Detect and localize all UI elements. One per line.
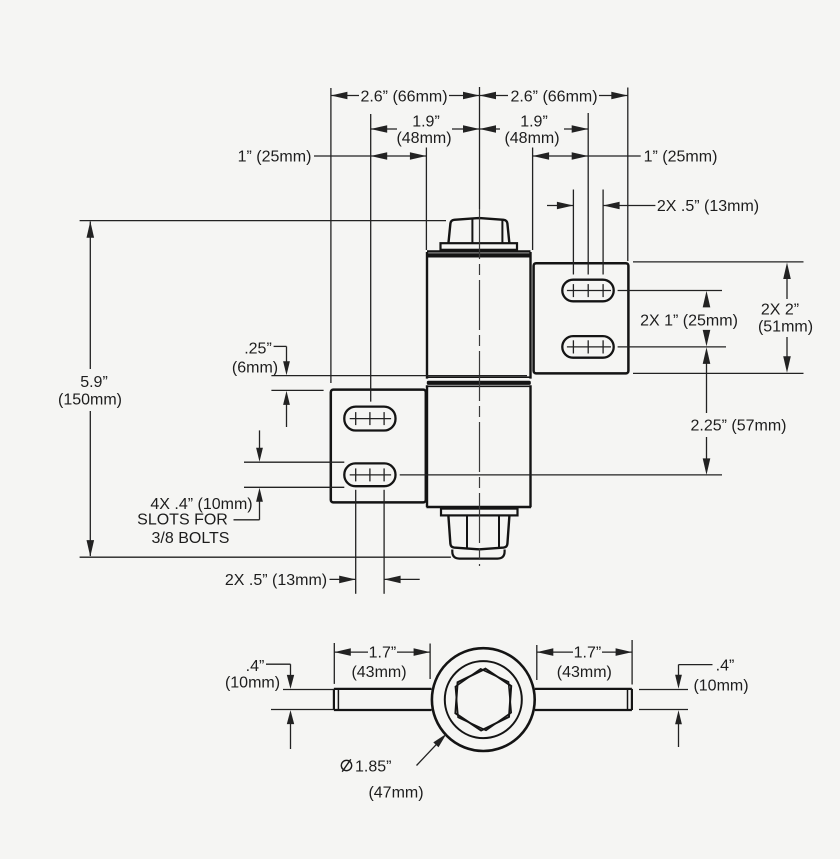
left lower slot leader to 2.25 dim <box>400 474 722 476</box>
svg-text:1.7”: 1.7” <box>574 644 602 661</box>
bottom washer <box>441 509 518 516</box>
svg-text:.4”: .4” <box>716 658 735 675</box>
svg-text:SLOTS FOR: SLOTS FOR <box>137 512 228 529</box>
svg-text:1.9”: 1.9” <box>412 114 440 131</box>
svg-text:1.9”: 1.9” <box>520 114 548 131</box>
ext line centerline top <box>479 87 481 209</box>
svg-text:(10mm): (10mm) <box>693 678 748 695</box>
ext line barrel right edge <box>532 148 534 251</box>
dim 1in left <box>238 149 427 166</box>
lower slot leader <box>618 346 726 348</box>
dim 2X 1in <box>640 291 738 347</box>
dim dia 1.85in <box>341 734 446 802</box>
right arm <box>535 689 632 710</box>
svg-text:1.85”: 1.85” <box>355 759 391 776</box>
ext line right plate outer edge <box>627 88 629 262</box>
upper barrel body <box>427 252 531 379</box>
top hex nut <box>448 218 509 243</box>
dim 4X .4in slots <box>137 430 344 547</box>
dim 1.7in left <box>334 643 430 684</box>
right plate upper slot <box>562 280 613 302</box>
top washer <box>441 243 518 250</box>
dim 5.9in <box>58 221 122 556</box>
bottom view hex socket chamfer <box>455 669 511 730</box>
svg-text:(51mm): (51mm) <box>758 319 813 336</box>
svg-text:(43mm): (43mm) <box>557 664 612 681</box>
dim .4in left <box>225 658 334 749</box>
svg-text:4X .4” (10mm): 4X .4” (10mm) <box>150 496 252 513</box>
dim 2.6in right <box>480 88 628 106</box>
dim .25in <box>232 341 527 428</box>
upper slot cross marks <box>567 284 611 297</box>
svg-text:(6mm): (6mm) <box>232 360 278 377</box>
dim 1in right <box>533 149 718 166</box>
svg-text:2.6” (66mm): 2.6” (66mm) <box>360 89 447 106</box>
svg-text:.4”: .4” <box>246 658 265 675</box>
lower barrel body <box>427 385 532 507</box>
left upper slot cross marks <box>350 412 391 425</box>
left plate upper slot <box>344 407 395 431</box>
ext line left slot center <box>370 114 372 402</box>
svg-text:3/8 BOLTS: 3/8 BOLTS <box>152 530 230 547</box>
dim 1.9in left <box>371 114 480 148</box>
dim 1.9in right <box>480 114 589 148</box>
dim 2X .5in top right <box>547 198 759 215</box>
svg-text:(47mm): (47mm) <box>368 785 423 802</box>
barrel seam band <box>427 381 531 385</box>
dim 2X 2in <box>633 262 813 374</box>
ext line left plate outer edge <box>330 88 332 383</box>
svg-text:(150mm): (150mm) <box>58 392 122 409</box>
lower slot cross marks <box>567 340 611 353</box>
right leaf plate <box>534 263 629 373</box>
svg-text:1.7”: 1.7” <box>369 644 397 661</box>
ext line right slot center <box>587 113 589 275</box>
ext line barrel left edge <box>425 148 427 251</box>
svg-text:2X .5” (13mm): 2X .5” (13mm) <box>657 198 759 215</box>
svg-text:(48mm): (48mm) <box>396 130 451 147</box>
svg-text:1” (25mm): 1” (25mm) <box>238 149 312 166</box>
ext line part top <box>80 220 446 222</box>
svg-text:(48mm): (48mm) <box>504 130 559 147</box>
svg-text:5.9”: 5.9” <box>80 374 108 391</box>
dim 2.25in <box>690 347 786 475</box>
bottom view outer circle <box>432 648 535 751</box>
barrel top heavy band <box>427 253 531 257</box>
bottom view hex socket <box>455 669 511 731</box>
svg-text:2.6” (66mm): 2.6” (66mm) <box>510 89 597 106</box>
svg-text:1” (25mm): 1” (25mm) <box>644 149 718 166</box>
left arm <box>334 689 432 710</box>
svg-text:2.25” (57mm): 2.25” (57mm) <box>690 418 786 435</box>
bolt tip cap <box>452 550 504 559</box>
upper slot leader <box>618 290 722 292</box>
left leaf plate <box>331 390 426 503</box>
ext lines left lower slot arc centers <box>356 490 384 594</box>
bottom hex <box>448 516 509 549</box>
svg-text:2X 1” (25mm): 2X 1” (25mm) <box>640 313 738 330</box>
dim 2X .5in bottom <box>225 572 420 589</box>
svg-text:(10mm): (10mm) <box>225 674 280 691</box>
svg-text:(43mm): (43mm) <box>351 664 406 681</box>
bottom view inner circle <box>445 661 522 738</box>
ext line part bottom <box>80 556 451 558</box>
dim .4in right <box>639 658 749 748</box>
ext lines right slot arc centers <box>573 190 603 275</box>
svg-text:2X 2”: 2X 2” <box>761 302 799 319</box>
left plate lower slot <box>344 463 395 486</box>
vertical centerline <box>479 209 481 566</box>
left lower slot cross marks <box>350 468 391 481</box>
svg-text:2X .5” (13mm): 2X .5” (13mm) <box>225 572 327 589</box>
dim 1.7in right <box>537 640 632 685</box>
right plate lower slot <box>562 336 613 358</box>
svg-text:.25”: .25” <box>244 341 272 358</box>
barrel top edge <box>427 250 531 252</box>
dim 2.6in left <box>331 88 480 106</box>
